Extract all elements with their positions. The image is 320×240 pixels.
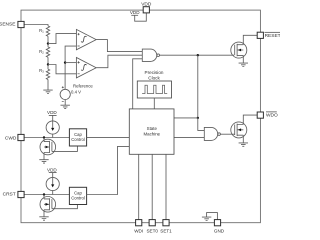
ground (GND pin) bbox=[202, 217, 211, 220]
wire U1 output to NAND U3 input 1 bbox=[96, 40, 142, 52]
transistor Q1 (RESET driver) bbox=[231, 42, 247, 58]
label R1 bbox=[39, 28, 44, 34]
svg-text:RESET: RESET bbox=[265, 33, 280, 39]
svg-text:CWD: CWD bbox=[5, 135, 17, 141]
svg-text:VDD: VDD bbox=[130, 10, 140, 15]
wire state machine to WDI pin bbox=[138, 154, 140, 219]
transistor Q4 (CRST discharge) bbox=[40, 197, 56, 213]
svg-text:CRST: CRST bbox=[3, 192, 16, 198]
node B junction bbox=[47, 63, 49, 65]
wire Q3 source to ground bbox=[43, 153, 45, 160]
wire state machine to SET0 pin bbox=[151, 154, 153, 219]
wire cap control 1 to state machine bbox=[87, 137, 130, 139]
svg-text:VDD: VDD bbox=[141, 1, 152, 7]
wire I2 to CRST line bbox=[52, 191, 54, 195]
wire SENSE to divider top bbox=[24, 25, 48, 26]
wire cap control 2 to state machine bbox=[87, 146, 130, 194]
ground (Q1) bbox=[239, 63, 248, 66]
wire node D to NAND U4 input 1 bbox=[198, 118, 205, 130]
current source I1 bbox=[46, 121, 59, 134]
svg-text:R1: R1 bbox=[39, 28, 44, 34]
wire V1 to ground bbox=[64, 100, 66, 106]
svg-text:Reference: Reference bbox=[73, 84, 93, 89]
wire I1 to CWD line bbox=[52, 134, 54, 137]
op-amp U2 comparator bbox=[76, 58, 96, 78]
pin WDI bbox=[134, 220, 143, 234]
svg-text:0.4 V: 0.4 V bbox=[71, 90, 81, 95]
pin SENSE bbox=[0, 21, 24, 27]
node D junction bbox=[197, 117, 199, 119]
wire Q3 drain to node E bbox=[43, 138, 45, 142]
wire state machine out1 to node D bbox=[174, 117, 198, 119]
power rail VDD (CWD source) bbox=[47, 110, 57, 121]
power rail VDD (CRST source) bbox=[47, 167, 57, 177]
IC boundary box bbox=[21, 10, 260, 223]
wire R2 to node B bbox=[47, 57, 49, 64]
resistor R1 bbox=[46, 26, 49, 36]
pin WDO bbox=[257, 112, 278, 119]
wire tap1 to comparator U1 + bbox=[48, 34, 76, 44]
wire tap2 to comparator U2 - bbox=[48, 65, 76, 74]
wire clock to state machine bbox=[153, 98, 155, 109]
power rail VDD (top internal) bbox=[130, 10, 140, 15]
wire state machine to SET1 pin bbox=[165, 154, 167, 219]
node E junction bbox=[43, 136, 45, 138]
svg-text:Clock: Clock bbox=[148, 75, 160, 80]
label Reference bbox=[73, 84, 93, 89]
label R2 bbox=[39, 49, 44, 55]
wire Q1 drain to RESET pin bbox=[243, 35, 257, 44]
wire state machine out2 to NAND U4 input 2 bbox=[174, 137, 204, 139]
transistor Q3 (CWD discharge) bbox=[40, 139, 56, 155]
pin CRST bbox=[3, 191, 24, 197]
state machine box bbox=[129, 109, 174, 154]
svg-text:SENSE: SENSE bbox=[0, 22, 15, 28]
wire node B to R3 bbox=[47, 65, 49, 70]
op-amp U1 comparator bbox=[76, 29, 96, 49]
wire node A to R2 bbox=[47, 44, 49, 47]
svg-text:Control: Control bbox=[71, 196, 85, 201]
svg-text:GND: GND bbox=[214, 228, 225, 233]
wire ref to U2 + input bbox=[65, 62, 76, 64]
label Cap Control 2 bbox=[71, 191, 85, 201]
wire Q1 source to ground bbox=[242, 55, 244, 63]
label R3 bbox=[39, 68, 44, 74]
wire U1 - input to reference rail bbox=[65, 46, 76, 89]
label State Machine bbox=[143, 126, 160, 136]
pin SET1 bbox=[160, 220, 172, 234]
current source I2 bbox=[46, 177, 59, 190]
ground (reference) bbox=[61, 105, 70, 108]
svg-text:Control: Control bbox=[71, 137, 85, 142]
wire Q2 source to ground bbox=[242, 135, 244, 143]
wire Q2 drain to WDO pin bbox=[243, 115, 257, 124]
precision clock box bbox=[137, 81, 171, 98]
wire CWD pin to cap control 1 bbox=[24, 137, 69, 139]
VDD pin stub to internal VDD rail bbox=[135, 13, 147, 21]
label 0.4 V bbox=[71, 90, 81, 95]
NAND gate U3 bbox=[142, 49, 159, 61]
label Precision Clock bbox=[145, 70, 164, 80]
node ref junction bbox=[64, 61, 66, 63]
svg-text:State: State bbox=[147, 126, 158, 131]
svg-text:Machine: Machine bbox=[143, 132, 160, 137]
transistor Q2 (WDO driver) bbox=[231, 122, 247, 138]
wire Q4 gate to cap control 2 bbox=[52, 205, 78, 209]
node F junction bbox=[43, 193, 45, 195]
label Cap Control 1 bbox=[71, 132, 85, 142]
cap control 2 box bbox=[69, 187, 86, 204]
wire Q3 gate to cap control 1 bbox=[52, 146, 78, 151]
pin CWD bbox=[5, 134, 24, 141]
wire state machine to NAND U3 input 3 bbox=[133, 59, 143, 109]
cap control 1 box bbox=[69, 129, 86, 146]
ground (divider) bbox=[43, 90, 52, 93]
svg-text:WDI: WDI bbox=[134, 228, 143, 233]
voltage source V1 reference 0.4V bbox=[60, 86, 70, 101]
wire U3 output to Q1 gate bbox=[160, 54, 235, 56]
wire R3 to ground bbox=[47, 80, 49, 91]
node C junction bbox=[197, 54, 199, 56]
pin SET0 bbox=[146, 220, 158, 234]
wire node C down to node D bbox=[197, 55, 199, 118]
svg-text:Precision: Precision bbox=[145, 70, 164, 75]
ground (Q3) bbox=[39, 160, 48, 163]
wire Q4 drain to node F bbox=[43, 195, 45, 199]
svg-text:VDD: VDD bbox=[47, 167, 57, 172]
wire U4 output to Q2 gate bbox=[220, 133, 234, 135]
wire CRST pin to cap control 2 bbox=[24, 194, 69, 196]
svg-text:R2: R2 bbox=[39, 49, 44, 55]
ground (Q4) bbox=[39, 217, 48, 220]
pin GND bbox=[214, 220, 225, 234]
svg-text:SET0: SET0 bbox=[146, 228, 158, 233]
node A junction bbox=[47, 42, 49, 44]
svg-text:WDO: WDO bbox=[266, 112, 278, 118]
wire GND pin to internal ground bbox=[207, 213, 218, 220]
ground (Q2) bbox=[239, 143, 248, 146]
svg-text:R3: R3 bbox=[39, 68, 44, 74]
svg-text:SET1: SET1 bbox=[160, 228, 172, 233]
resistor R3 bbox=[46, 69, 49, 79]
NAND gate U4 bbox=[204, 127, 220, 140]
svg-text:VDD: VDD bbox=[47, 110, 57, 115]
pin VDD bbox=[141, 1, 152, 13]
pin RESET bbox=[257, 32, 280, 39]
wire R1 to node A bbox=[47, 36, 49, 43]
resistor R2 bbox=[46, 47, 49, 57]
wire Q4 source to ground bbox=[43, 210, 45, 217]
wire U2 output to NAND U3 input 2 bbox=[96, 55, 142, 67]
